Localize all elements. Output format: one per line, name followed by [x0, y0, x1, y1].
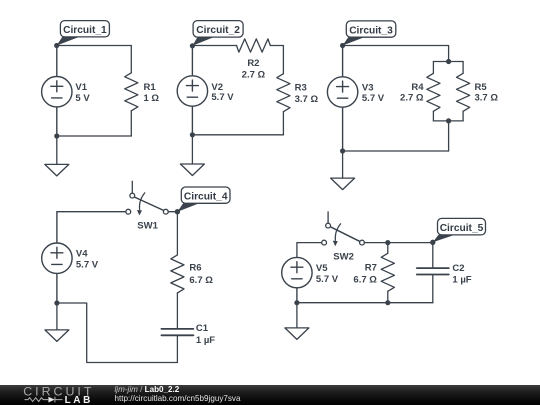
- wire switch to node circuit4: [168, 211, 177, 213]
- wire bottom circuit4: [57, 303, 177, 363]
- wire R2 to corner: [270, 46, 283, 74]
- ground circuit1: [45, 164, 69, 176]
- node A circuit1: [54, 43, 59, 48]
- node C circuit5: [430, 240, 435, 245]
- svg-text:R5: R5: [475, 82, 488, 93]
- ground circuit4: [45, 330, 69, 342]
- resistor R7: [381, 253, 394, 291]
- svg-text:http://circuitlab.com/cn5b9jgu: http://circuitlab.com/cn5b9jguy7sva: [115, 394, 241, 403]
- svg-text:Circuit_3: Circuit_3: [349, 26, 393, 37]
- wire bracket bottom circuit3: [433, 120, 463, 122]
- node bottom circuit5: [294, 300, 299, 305]
- svg-text:6.7 Ω: 6.7 Ω: [353, 275, 377, 286]
- svg-text:1 Ω: 1 Ω: [144, 93, 160, 104]
- svg-text:1 µF: 1 µF: [452, 275, 471, 286]
- svg-text:5 V: 5 V: [75, 93, 90, 104]
- node label Circuit_2: [192, 21, 243, 46]
- voltage source V1: [42, 46, 72, 137]
- svg-text:ljm-jim / Lab0_2.2: ljm-jim / Lab0_2.2: [115, 385, 180, 394]
- callout labels: [57, 21, 486, 243]
- resistor R2: [237, 39, 271, 52]
- svg-text:R2: R2: [247, 58, 259, 69]
- capacitor C2: [417, 268, 449, 274]
- svg-text:2.7 Ω: 2.7 Ω: [242, 69, 266, 80]
- wire right circuit1: [130, 46, 132, 73]
- svg-text:V5: V5: [316, 263, 328, 274]
- resistor R3: [277, 74, 290, 112]
- node bottom circuit3: [340, 148, 345, 153]
- wire bottom circuit1: [57, 135, 132, 137]
- svg-text:3.7 Ω: 3.7 Ω: [475, 93, 499, 104]
- node R7 bottom circuit5: [385, 300, 390, 305]
- resistor R4: [427, 73, 440, 111]
- node bottom circuit1: [54, 133, 59, 138]
- wire C2 to bottom: [432, 275, 434, 303]
- node A circuit3: [340, 43, 345, 48]
- wire top circuit3: [343, 46, 449, 62]
- wire top circuit1: [57, 45, 132, 47]
- switch SW1: [126, 181, 168, 215]
- wire switch to nodes circuit5: [364, 242, 433, 244]
- svg-text:Circuit_5: Circuit_5: [440, 223, 484, 234]
- wire V4 to switch: [57, 211, 128, 213]
- svg-text:LAB: LAB: [65, 395, 93, 405]
- voltage source V3: [327, 46, 357, 152]
- svg-text:1 µF: 1 µF: [196, 335, 215, 346]
- resistor R1: [125, 73, 138, 111]
- wire R4 top stub: [432, 62, 434, 74]
- voltage source V2: [177, 46, 207, 135]
- node bottom circuit4: [54, 300, 59, 305]
- svg-text:5.7 V: 5.7 V: [362, 93, 385, 104]
- node label Circuit_1: [57, 21, 110, 46]
- ground circuit2: [180, 164, 204, 176]
- wire V5 to switch: [297, 243, 324, 258]
- svg-text:Circuit_4: Circuit_4: [184, 192, 228, 203]
- wire R3 bottom: [282, 112, 284, 135]
- svg-text:SW1: SW1: [137, 221, 158, 232]
- node junction bottom circuit3: [446, 118, 451, 123]
- ground circuit5: [285, 328, 309, 340]
- wire top circuit2: [192, 45, 236, 47]
- wire ground stem circuit2: [191, 135, 193, 164]
- svg-text:2.7 Ω: 2.7 Ω: [400, 93, 424, 104]
- svg-text:C2: C2: [452, 263, 464, 274]
- wire parallel to bottom circuit3: [448, 121, 450, 151]
- capacitor C1: [161, 329, 193, 335]
- wire ground stem circuit1: [56, 136, 58, 164]
- node B circuit4: [175, 209, 180, 214]
- svg-text:V1: V1: [75, 82, 87, 93]
- svg-text:R6: R6: [189, 263, 201, 274]
- component value labels: [75, 58, 498, 346]
- wire R1 bottom: [130, 111, 132, 136]
- node R7 top circuit5: [385, 240, 390, 245]
- resistor R6: [171, 255, 184, 293]
- svg-text:Circuit_1: Circuit_1: [63, 25, 107, 36]
- svg-text:R1: R1: [144, 82, 157, 93]
- svg-text:Circuit_2: Circuit_2: [196, 25, 240, 36]
- ground circuit3: [331, 178, 355, 190]
- wire R5 bottom stub: [462, 111, 464, 121]
- wire R4 bottom stub: [432, 111, 434, 121]
- node junction top circuit3: [446, 59, 451, 64]
- wire bottom circuit3: [343, 150, 449, 152]
- svg-text:5.7 V: 5.7 V: [211, 92, 234, 103]
- switch SW2: [322, 212, 365, 246]
- svg-text:V4: V4: [76, 249, 88, 260]
- svg-text:6.7 Ω: 6.7 Ω: [189, 275, 213, 286]
- wire C1 to bottom circuit4: [176, 335, 178, 362]
- wire ground stem circuit3: [342, 151, 344, 178]
- node A circuit2: [190, 43, 195, 48]
- svg-text:C1: C1: [196, 323, 209, 334]
- svg-text:3.7 Ω: 3.7 Ω: [295, 94, 319, 105]
- footer bar: [0, 385, 540, 405]
- svg-text:R4: R4: [411, 82, 424, 93]
- voltage source V5: [282, 257, 312, 302]
- wire node to R6: [176, 212, 178, 255]
- footer credit line: [115, 385, 241, 403]
- svg-text:V3: V3: [362, 83, 374, 94]
- node label Circuit_5: [433, 218, 486, 242]
- svg-text:R3: R3: [295, 83, 307, 94]
- wire bracket top circuit3: [433, 61, 463, 63]
- svg-text:5.7 V: 5.7 V: [316, 274, 339, 285]
- node bottom circuit2: [190, 132, 195, 137]
- wire R7 bottom: [387, 291, 389, 302]
- svg-text:5.7 V: 5.7 V: [76, 259, 99, 270]
- logo CIRCUIT LAB: [23, 385, 94, 405]
- wire bottom circuit2: [192, 134, 283, 136]
- wire node to R7: [387, 243, 389, 254]
- wire ground stem circuit5: [296, 303, 298, 328]
- wire node to C2: [432, 243, 434, 269]
- wire R5 top stub: [462, 62, 464, 74]
- voltage source V4: [42, 212, 72, 303]
- node label Circuit_4: [177, 187, 230, 212]
- wire R6 to C1: [176, 293, 178, 329]
- node label Circuit_3: [343, 21, 396, 46]
- svg-text:SW2: SW2: [333, 251, 354, 262]
- wire ground stem circuit4: [56, 303, 58, 330]
- resistor R5: [457, 73, 470, 111]
- wire bottom circuit5: [297, 302, 433, 304]
- svg-text:R7: R7: [365, 262, 377, 273]
